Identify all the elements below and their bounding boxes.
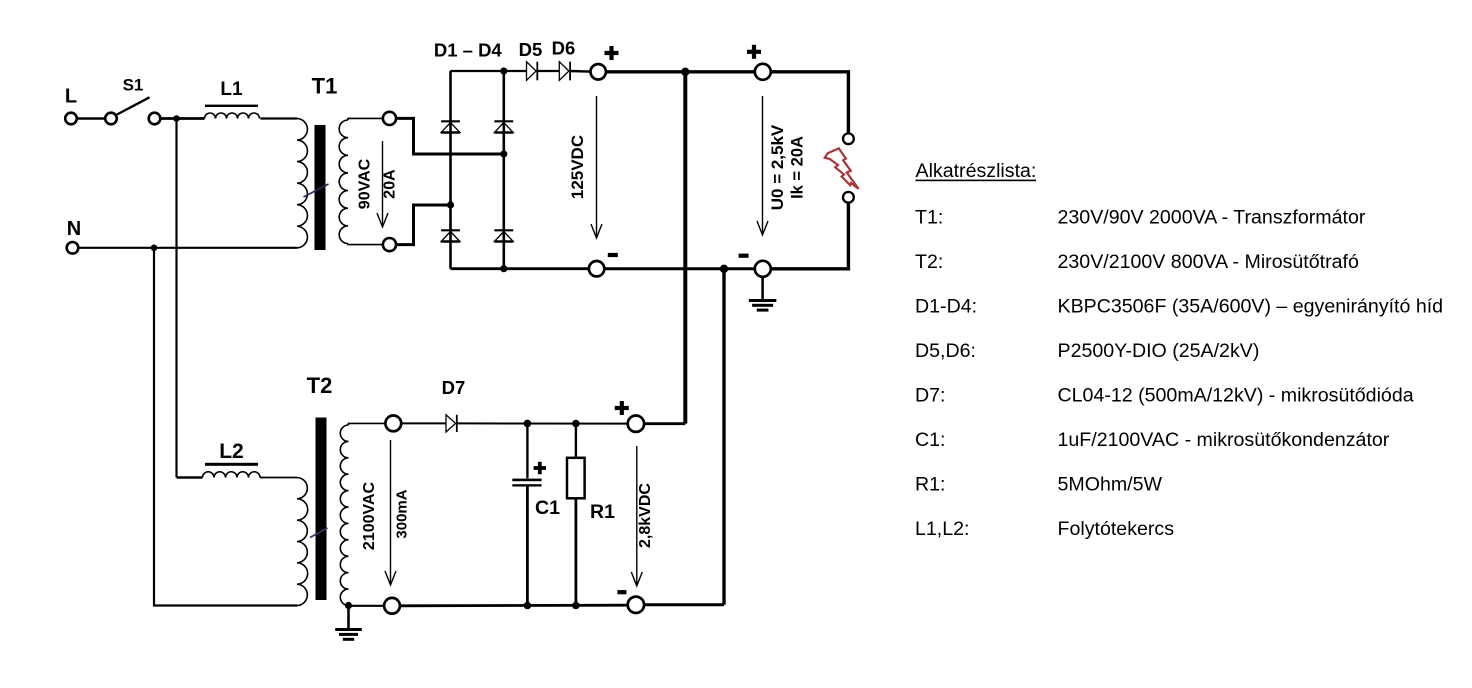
terminal 125VDC plus	[591, 64, 606, 79]
terminal HV plus	[628, 416, 644, 432]
wire plus bus	[606, 70, 755, 73]
terminal T2 secondary bottom	[384, 598, 400, 614]
junction bridge minus	[500, 265, 507, 272]
svg-text:U0 = 2,5kV: U0 = 2,5kV	[768, 124, 787, 210]
transformer T2 primary winding	[297, 478, 308, 606]
rectifier bridge top rail	[451, 70, 527, 72]
capacitor C1	[512, 423, 541, 605]
label C1 plus	[534, 466, 546, 470]
svg-text:N: N	[67, 218, 81, 240]
terminal HV minus	[628, 597, 644, 613]
spark gap	[843, 133, 854, 202]
parts list title	[916, 160, 1037, 182]
terminal output minus	[755, 261, 771, 277]
wire D6 to plus terminal	[571, 70, 590, 73]
arrow 90VAC	[382, 141, 384, 227]
diode D2	[494, 120, 513, 122]
svg-text:T1: T1	[312, 73, 338, 98]
label plus 125VDC	[605, 51, 619, 55]
junction C1 top	[524, 420, 532, 428]
wire T1 bottom to bridge	[397, 205, 451, 245]
svg-text:T2: T2	[307, 373, 333, 398]
inductor L2	[177, 472, 298, 478]
svg-text:C1: C1	[535, 497, 560, 519]
label minus 125VDC	[608, 253, 618, 257]
svg-text:R1:: R1:	[915, 474, 946, 496]
wire L1 to T1	[261, 117, 298, 119]
label L1	[205, 79, 258, 107]
diode D5	[527, 62, 537, 81]
svg-text:L: L	[65, 86, 77, 108]
wire L to S1	[78, 117, 105, 119]
svg-text:T1:: T1:	[915, 206, 943, 228]
parts list row T2	[915, 251, 1359, 273]
wire node C down	[683, 72, 687, 424]
junction node C	[681, 68, 689, 76]
rectifier bridge bottom rail	[451, 267, 590, 270]
parts list row D5,D6	[915, 340, 1259, 362]
rectifier bridge left rail	[449, 71, 452, 269]
junction R1 top	[572, 420, 580, 428]
svg-text:L1,L2:: L1,L2:	[915, 518, 969, 540]
inductor L1	[205, 113, 260, 118]
svg-text:Ik = 20A: Ik = 20A	[789, 136, 807, 199]
terminal 125VDC minus	[589, 261, 604, 276]
svg-text:T2:: T2:	[915, 251, 943, 273]
transformer T1 secondary winding	[339, 118, 382, 244]
wire minus bus	[604, 267, 755, 270]
svg-text:S1: S1	[123, 76, 144, 95]
svg-text:2,8kVDC: 2,8kVDC	[637, 483, 654, 548]
svg-text:Alkatrészlista:: Alkatrészlista:	[916, 160, 1037, 182]
svg-text:D1 – D4: D1 – D4	[434, 39, 503, 60]
junction bridge AC left	[447, 201, 454, 208]
wire D7 to HV plus	[458, 422, 628, 424]
svg-text:20A: 20A	[382, 169, 399, 199]
label minus output	[739, 254, 749, 258]
svg-text:Folytótekercs: Folytótekercs	[1058, 518, 1175, 540]
label minus HV	[617, 590, 626, 594]
diode D3	[441, 229, 460, 231]
svg-text:D5,D6:: D5,D6:	[915, 340, 976, 362]
junction C1 bottom	[524, 602, 532, 610]
transformer T1 core	[304, 125, 329, 250]
svg-text:C1:: C1:	[915, 429, 946, 451]
wire S1 to L1	[161, 117, 205, 120]
svg-text:CL04-12 (500mA/12kV) - mikrosü: CL04-12 (500mA/12kV) - mikrosütődióda	[1058, 385, 1414, 407]
switch S1	[105, 97, 160, 124]
rectifier bridge right rail	[502, 71, 505, 269]
label plus output	[747, 50, 761, 54]
terminal output plus	[755, 64, 771, 80]
parts list row L1,L2	[915, 518, 1174, 540]
wire bottom rail	[400, 604, 628, 607]
wire node B down to T2	[154, 248, 297, 606]
wire T2 ground to terminal	[349, 605, 385, 607]
svg-text:2100VAC: 2100VAC	[361, 481, 378, 550]
value U0 Ik	[768, 124, 807, 210]
diode D6	[559, 62, 569, 81]
wire spark gap to output minus	[771, 203, 848, 269]
svg-text:125VDC: 125VDC	[568, 135, 587, 199]
arrow 2100VAC	[390, 440, 392, 585]
junction bridge AC right	[500, 150, 507, 157]
ground T2	[347, 606, 350, 629]
svg-text:5MOhm/5W: 5MOhm/5W	[1058, 474, 1163, 496]
svg-text:D6: D6	[552, 38, 576, 59]
terminal L	[65, 113, 77, 125]
ground output	[761, 277, 764, 299]
svg-text:L2: L2	[219, 440, 244, 463]
svg-text:D7: D7	[442, 377, 466, 398]
diode D7	[446, 415, 456, 432]
wire T2 top to D7	[401, 422, 446, 424]
svg-text:230V/90V 2000VA - Transzformát: 230V/90V 2000VA - Transzformátor	[1058, 206, 1366, 228]
wire D5 to D6	[538, 70, 560, 72]
parts list row R1	[915, 474, 1163, 496]
svg-text:D5: D5	[519, 39, 543, 60]
transformer T2 core	[310, 418, 328, 601]
junction T2 ground	[345, 602, 352, 609]
svg-text:230V/2100V 800VA - Mirosütőtra: 230V/2100V 800VA - Mirosütőtrafó	[1058, 251, 1359, 273]
diode D4	[494, 229, 513, 231]
junction bridge plus	[500, 67, 507, 74]
junction node A	[173, 115, 180, 122]
wire node D down	[722, 269, 725, 605]
svg-text:1uF/2100VAC - mikrosütőkondenz: 1uF/2100VAC - mikrosütőkondenzátor	[1058, 429, 1390, 451]
label L2	[205, 440, 258, 466]
transformer T1 primary winding	[297, 119, 307, 248]
junction node B	[151, 245, 158, 252]
svg-text:D7:: D7:	[915, 385, 946, 407]
svg-text:D1-D4:: D1-D4:	[915, 295, 977, 317]
lightning bolt	[825, 148, 859, 189]
svg-text:90VAC: 90VAC	[357, 158, 374, 209]
diode D1	[441, 120, 460, 122]
parts list row D7	[915, 385, 1414, 407]
wire HV plus to node C	[644, 422, 685, 425]
terminal N	[67, 242, 79, 254]
label plus HV	[615, 406, 629, 410]
terminal T2 secondary top	[385, 416, 401, 432]
transformer T2 secondary winding	[340, 423, 385, 605]
junction R1 bottom	[572, 602, 580, 610]
arrow U0	[762, 96, 764, 235]
junction node D	[720, 265, 728, 273]
wire T1 top to bridge	[397, 118, 504, 154]
wire node A down to L2	[175, 119, 177, 478]
svg-text:KBPC3506F (35A/600V) – egyenir: KBPC3506F (35A/600V) – egyenirányító híd	[1058, 295, 1444, 317]
wire N to T1	[79, 247, 297, 249]
wire HV minus to node D	[644, 603, 724, 606]
wire output plus to spark gap	[771, 72, 848, 133]
terminal T1 secondary top	[383, 112, 396, 125]
arrow 2,8kVDC	[636, 446, 638, 586]
svg-text:300mA: 300mA	[394, 489, 411, 538]
parts list row T1	[915, 206, 1366, 228]
svg-text:R1: R1	[590, 501, 615, 523]
svg-text:P2500Y-DIO (25A/2kV): P2500Y-DIO (25A/2kV)	[1058, 340, 1260, 362]
svg-text:L1: L1	[220, 79, 243, 100]
arrow 125VDC	[596, 96, 598, 238]
parts list row D1-D4	[915, 295, 1443, 317]
terminal T1 secondary bottom	[383, 238, 396, 251]
parts list row C1	[915, 429, 1390, 451]
resistor R1	[567, 424, 585, 606]
